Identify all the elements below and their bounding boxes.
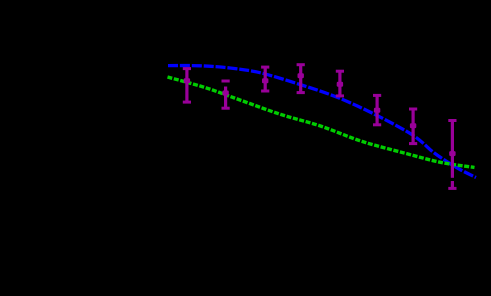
error bar 7 <box>409 108 417 146</box>
green dotted model curve <box>168 77 475 168</box>
error bar 4 <box>297 63 305 94</box>
error bar 8 <box>448 119 456 190</box>
error bar 3 <box>261 66 269 93</box>
error bar 6 <box>373 94 381 126</box>
error bar 5 <box>336 70 344 98</box>
error bar 1 <box>183 67 191 104</box>
blue dashed model curve <box>168 66 476 178</box>
error bar 2 <box>222 80 230 110</box>
